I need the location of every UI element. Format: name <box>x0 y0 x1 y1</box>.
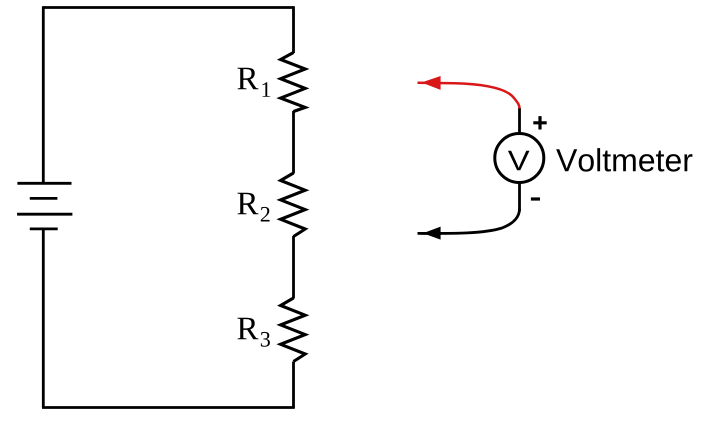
label Voltmeter <box>556 148 692 172</box>
resistor R1 zigzag <box>281 53 306 112</box>
wire left upper <box>42 6 45 183</box>
battery plate short bottom <box>30 227 58 230</box>
wire right: R1 to R2 <box>292 111 295 174</box>
battery plate long <box>17 213 72 216</box>
voltmeter top lead wire <box>518 108 521 134</box>
label R1 subscript 1 <box>262 82 270 97</box>
label R2 <box>237 193 258 215</box>
label R1 <box>237 68 258 90</box>
plus sign <box>533 116 546 129</box>
label R3 subscript 3 <box>261 332 270 347</box>
wire right: R2 to R3 <box>292 236 295 299</box>
wire top <box>43 6 293 9</box>
black probe curve <box>418 209 520 233</box>
battery plate short <box>30 197 58 200</box>
resistor R3 zigzag <box>281 298 306 362</box>
label R2 subscript 2 <box>261 207 270 222</box>
voltmeter bottom lead wire <box>518 183 521 212</box>
wire left lower <box>42 229 45 408</box>
voltmeter circle U1 <box>495 134 544 183</box>
red arrowhead <box>422 76 441 90</box>
resistor R2 zigzag <box>281 173 306 237</box>
wire right: top to R1 <box>292 6 295 53</box>
label R3 <box>237 318 258 340</box>
minus sign <box>531 197 540 200</box>
wire right: R3 to bottom <box>292 362 295 408</box>
voltmeter letter V <box>508 151 530 171</box>
black arrowhead <box>423 227 441 240</box>
battery plate long top <box>17 182 71 185</box>
red probe curve <box>418 83 520 109</box>
wire bottom <box>42 406 295 409</box>
